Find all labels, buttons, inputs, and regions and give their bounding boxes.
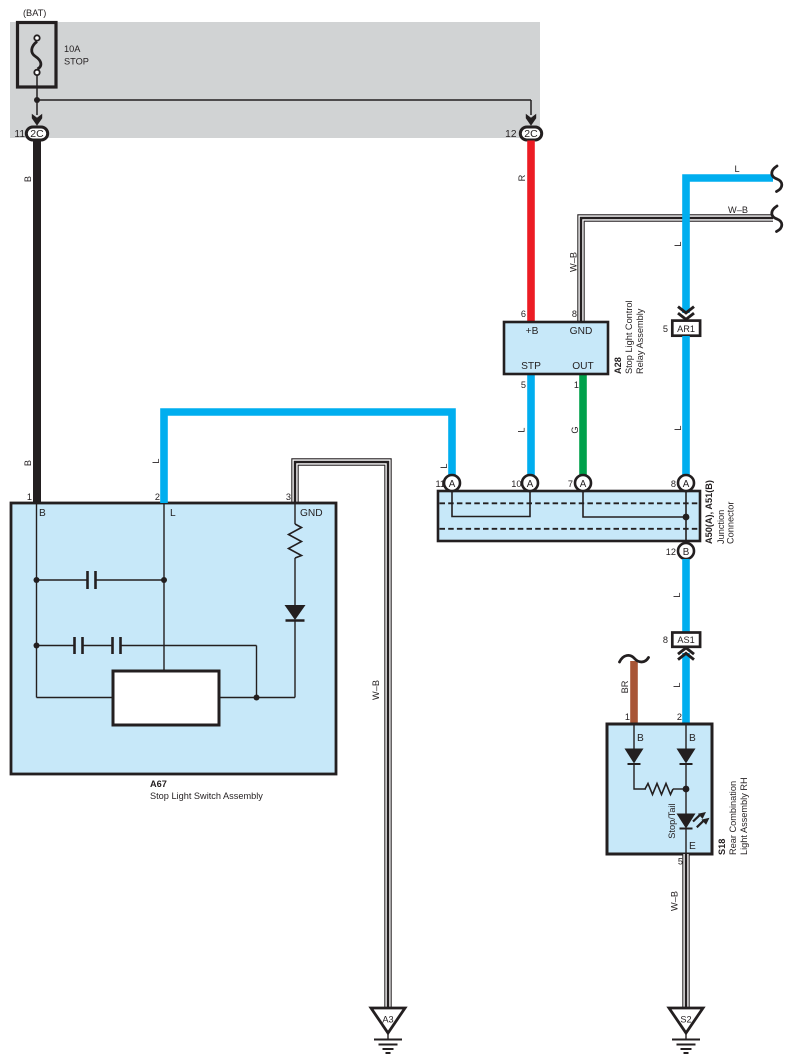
- junction connector A50(A) A51(B) box: [438, 491, 700, 541]
- wire drop to pin 11: [36, 100, 38, 115]
- wire G green relay OUT to junction pin7: [579, 374, 587, 476]
- wire GND branch top: [294, 503, 296, 524]
- node dot bottom: [254, 695, 260, 701]
- wire diode to bottom: [294, 621, 296, 698]
- connector AR1: [672, 321, 700, 336]
- wire L blue relay STP to junction pin10: [527, 374, 535, 476]
- diode D1: [285, 605, 306, 620]
- svg-text:R: R: [517, 174, 527, 181]
- svg-text:STOP: STOP: [64, 57, 89, 67]
- pin circle 8(A): [678, 475, 694, 491]
- relay A28 Stop Light Control Relay Assembly: [504, 322, 608, 374]
- ground S2: [669, 1008, 703, 1033]
- svg-text:2C: 2C: [30, 128, 44, 140]
- capacitor C2 row (two in series): [37, 645, 75, 647]
- svg-text:8: 8: [671, 479, 676, 489]
- svg-text:5: 5: [678, 857, 683, 867]
- wire B black 2C-11 to A67 pin1: [33, 141, 41, 504]
- wire S18 pin2 down: [685, 724, 687, 749]
- svg-text:L: L: [672, 592, 682, 597]
- node junction dot: [34, 97, 40, 103]
- break symbol W-B: [772, 206, 782, 232]
- svg-text:10: 10: [511, 479, 521, 489]
- svg-text:8: 8: [663, 635, 668, 645]
- svg-text:A28: A28: [613, 357, 623, 374]
- svg-text:1: 1: [625, 712, 630, 722]
- wire L blue top right horizontal with break: [686, 178, 773, 313]
- svg-text:AR1: AR1: [677, 324, 695, 334]
- wire resistor to node: [673, 788, 686, 790]
- wire inside A67 from pin2 to switch: [163, 503, 165, 671]
- pin circle 12(B): [678, 543, 694, 559]
- svg-text:A3: A3: [382, 1015, 393, 1025]
- wire bottom right: [219, 697, 295, 699]
- wire W-B relay GND (striped): [581, 218, 773, 322]
- svg-text:7: 7: [568, 479, 573, 489]
- wire inside A67 left vertical from pin1: [36, 503, 38, 698]
- svg-text:G: G: [570, 426, 580, 433]
- wire R red 2C-12 to relay +B: [527, 141, 535, 323]
- wire L blue AR1 to junction pin8: [682, 336, 690, 476]
- break symbol tilde: [620, 655, 649, 662]
- resistor R2 zigzag: [645, 784, 673, 795]
- svg-text:BR: BR: [620, 680, 630, 693]
- svg-text:8: 8: [572, 309, 577, 319]
- svg-text:AS1: AS1: [677, 635, 694, 645]
- node dot cap2 left: [34, 643, 40, 649]
- svg-text:1: 1: [574, 380, 579, 390]
- wire L blue AS1 to S18 pin2: [682, 653, 690, 724]
- power rail gray band: [10, 22, 540, 138]
- fuse element: [32, 42, 41, 70]
- arrow into connector 2C left: [32, 114, 42, 126]
- pin circle 10(A): [522, 475, 538, 491]
- wire S18 pin1 down: [633, 724, 635, 749]
- svg-text:W–B: W–B: [569, 252, 579, 272]
- svg-text:W–B: W–B: [670, 891, 680, 911]
- wire inside junction 7 to 8: [583, 492, 686, 517]
- wire diode to LED: [685, 764, 687, 814]
- svg-text:L: L: [673, 241, 683, 246]
- wire resistor to diode: [294, 558, 296, 605]
- wire to resistor: [634, 764, 646, 789]
- svg-text:W–B: W–B: [371, 680, 381, 700]
- svg-text:B: B: [23, 460, 33, 466]
- wire cap2 drop: [256, 646, 258, 698]
- svg-text:L: L: [439, 463, 449, 468]
- wire inside junction 11 to 10: [452, 492, 530, 517]
- wire W-B S18 to ground S2 (striped): [682, 854, 689, 1008]
- svg-text:11: 11: [435, 479, 445, 489]
- svg-text:A: A: [580, 479, 587, 490]
- svg-text:2: 2: [677, 712, 682, 722]
- break symbol blue: [772, 166, 782, 192]
- svg-text:Stop Light Control: Stop Light Control: [624, 300, 634, 374]
- svg-text:A67: A67: [150, 779, 167, 789]
- svg-text:L: L: [673, 425, 683, 430]
- wire inside junction 8 to 12: [685, 492, 687, 543]
- svg-text:12: 12: [505, 129, 517, 140]
- box A67 Stop Light Switch Assembly: [11, 503, 336, 774]
- ground A3: [371, 1008, 405, 1033]
- svg-text:GND: GND: [300, 508, 323, 519]
- dashed bus line upper: [440, 502, 699, 504]
- wire bus horizontal: [37, 99, 531, 101]
- dashed bus line lower: [440, 528, 699, 530]
- svg-text:Rear Combination: Rear Combination: [728, 781, 738, 855]
- svg-text:A: A: [683, 479, 690, 490]
- svg-text:A: A: [449, 479, 456, 490]
- diode D3: [677, 749, 696, 764]
- svg-text:B: B: [637, 733, 644, 744]
- wire W-B from A67 GND to ground A3 (striped): [295, 462, 388, 1008]
- svg-text:B: B: [683, 547, 690, 558]
- wire bottom left: [37, 697, 114, 699]
- svg-text:10A: 10A: [64, 44, 81, 54]
- svg-text:B: B: [23, 176, 33, 182]
- wire L blue junction 12 to AS1: [682, 559, 690, 633]
- wire BR brown to S18 pin1: [630, 661, 638, 724]
- node dot S18: [683, 786, 690, 793]
- svg-text:2: 2: [155, 492, 160, 502]
- svg-text:5: 5: [521, 380, 526, 390]
- svg-text:S2: S2: [680, 1015, 691, 1025]
- svg-text:S18: S18: [717, 839, 727, 855]
- wire drop to pin 12: [530, 100, 532, 115]
- svg-text:+B: +B: [526, 326, 539, 337]
- svg-text:Light Assembly RH: Light Assembly RH: [739, 777, 749, 855]
- svg-text:Connector: Connector: [726, 502, 736, 544]
- svg-text:L: L: [672, 682, 682, 687]
- node dot cap1 left: [34, 577, 40, 583]
- svg-text:11: 11: [14, 129, 25, 140]
- node dot inside junction: [683, 514, 690, 521]
- resistor R1 zigzag: [289, 524, 302, 558]
- wire L blue A67 pin2 to junction pin11: [164, 412, 452, 503]
- connector 2C pin 11: [26, 127, 47, 140]
- svg-text:W–B: W–B: [728, 205, 748, 215]
- arrow chevrons out of AS1: [678, 648, 694, 654]
- svg-text:B: B: [39, 508, 46, 519]
- connector 2C pin 12: [520, 127, 541, 140]
- svg-text:Relay Assembly: Relay Assembly: [635, 308, 645, 374]
- svg-text:E: E: [689, 841, 696, 852]
- svg-text:3: 3: [286, 492, 291, 502]
- arrow chevrons into AR1: [678, 307, 694, 313]
- svg-text:12: 12: [666, 547, 676, 557]
- svg-text:OUT: OUT: [572, 361, 594, 372]
- node dot on L line: [161, 577, 167, 583]
- arrow into connector 2C right: [526, 114, 536, 126]
- svg-text:Junction: Junction: [716, 510, 726, 544]
- diode D2: [625, 749, 644, 764]
- svg-text:L: L: [734, 164, 739, 174]
- svg-text:STP: STP: [521, 361, 541, 372]
- svg-text:Stop Light Switch Assembly: Stop Light Switch Assembly: [150, 791, 263, 801]
- wire LED to pin E: [685, 829, 687, 854]
- connector AS1: [672, 633, 700, 647]
- svg-text:Stop/Tail: Stop/Tail: [667, 803, 677, 838]
- svg-text:L: L: [517, 427, 527, 432]
- svg-text:(BAT): (BAT): [23, 8, 46, 18]
- svg-text:6: 6: [521, 309, 526, 319]
- box S18 Rear Combination Light Assembly RH: [607, 724, 712, 854]
- LED arrows: [693, 815, 700, 822]
- svg-text:5: 5: [663, 324, 668, 334]
- svg-text:GND: GND: [570, 326, 593, 337]
- pin circle 7(A): [575, 475, 591, 491]
- svg-text:L: L: [170, 508, 176, 519]
- svg-text:A: A: [527, 479, 534, 490]
- pin circle 11(A): [444, 475, 460, 491]
- capacitor C1 row: [37, 579, 88, 581]
- fuse F1 10A STOP body: [18, 23, 57, 88]
- svg-text:L: L: [151, 458, 161, 463]
- switch body box: [113, 671, 219, 725]
- LED Stop/Tail: [677, 814, 696, 829]
- svg-text:B: B: [689, 733, 696, 744]
- svg-text:2C: 2C: [524, 128, 538, 140]
- svg-text:A50(A), A51(B): A50(A), A51(B): [704, 480, 714, 544]
- wire fuse to node: [36, 75, 38, 100]
- svg-text:1: 1: [27, 492, 32, 502]
